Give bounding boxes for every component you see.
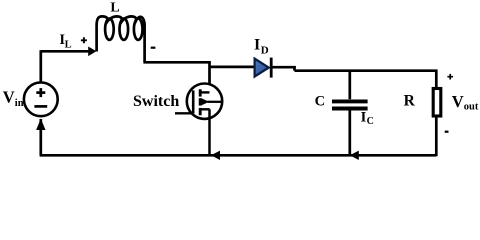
svg-text:L: L xyxy=(65,40,72,51)
svg-text:D: D xyxy=(261,44,269,56)
svg-text:in: in xyxy=(15,98,24,109)
svg-text:Switch: Switch xyxy=(133,93,179,110)
svg-text:L: L xyxy=(110,0,119,15)
svg-text:C: C xyxy=(315,94,325,110)
svg-text:V: V xyxy=(452,92,464,111)
svg-text:I: I xyxy=(254,37,260,54)
svg-text:C: C xyxy=(367,116,374,127)
svg-text:V: V xyxy=(3,87,15,106)
svg-text:R: R xyxy=(404,92,416,109)
svg-text:out: out xyxy=(464,101,479,112)
